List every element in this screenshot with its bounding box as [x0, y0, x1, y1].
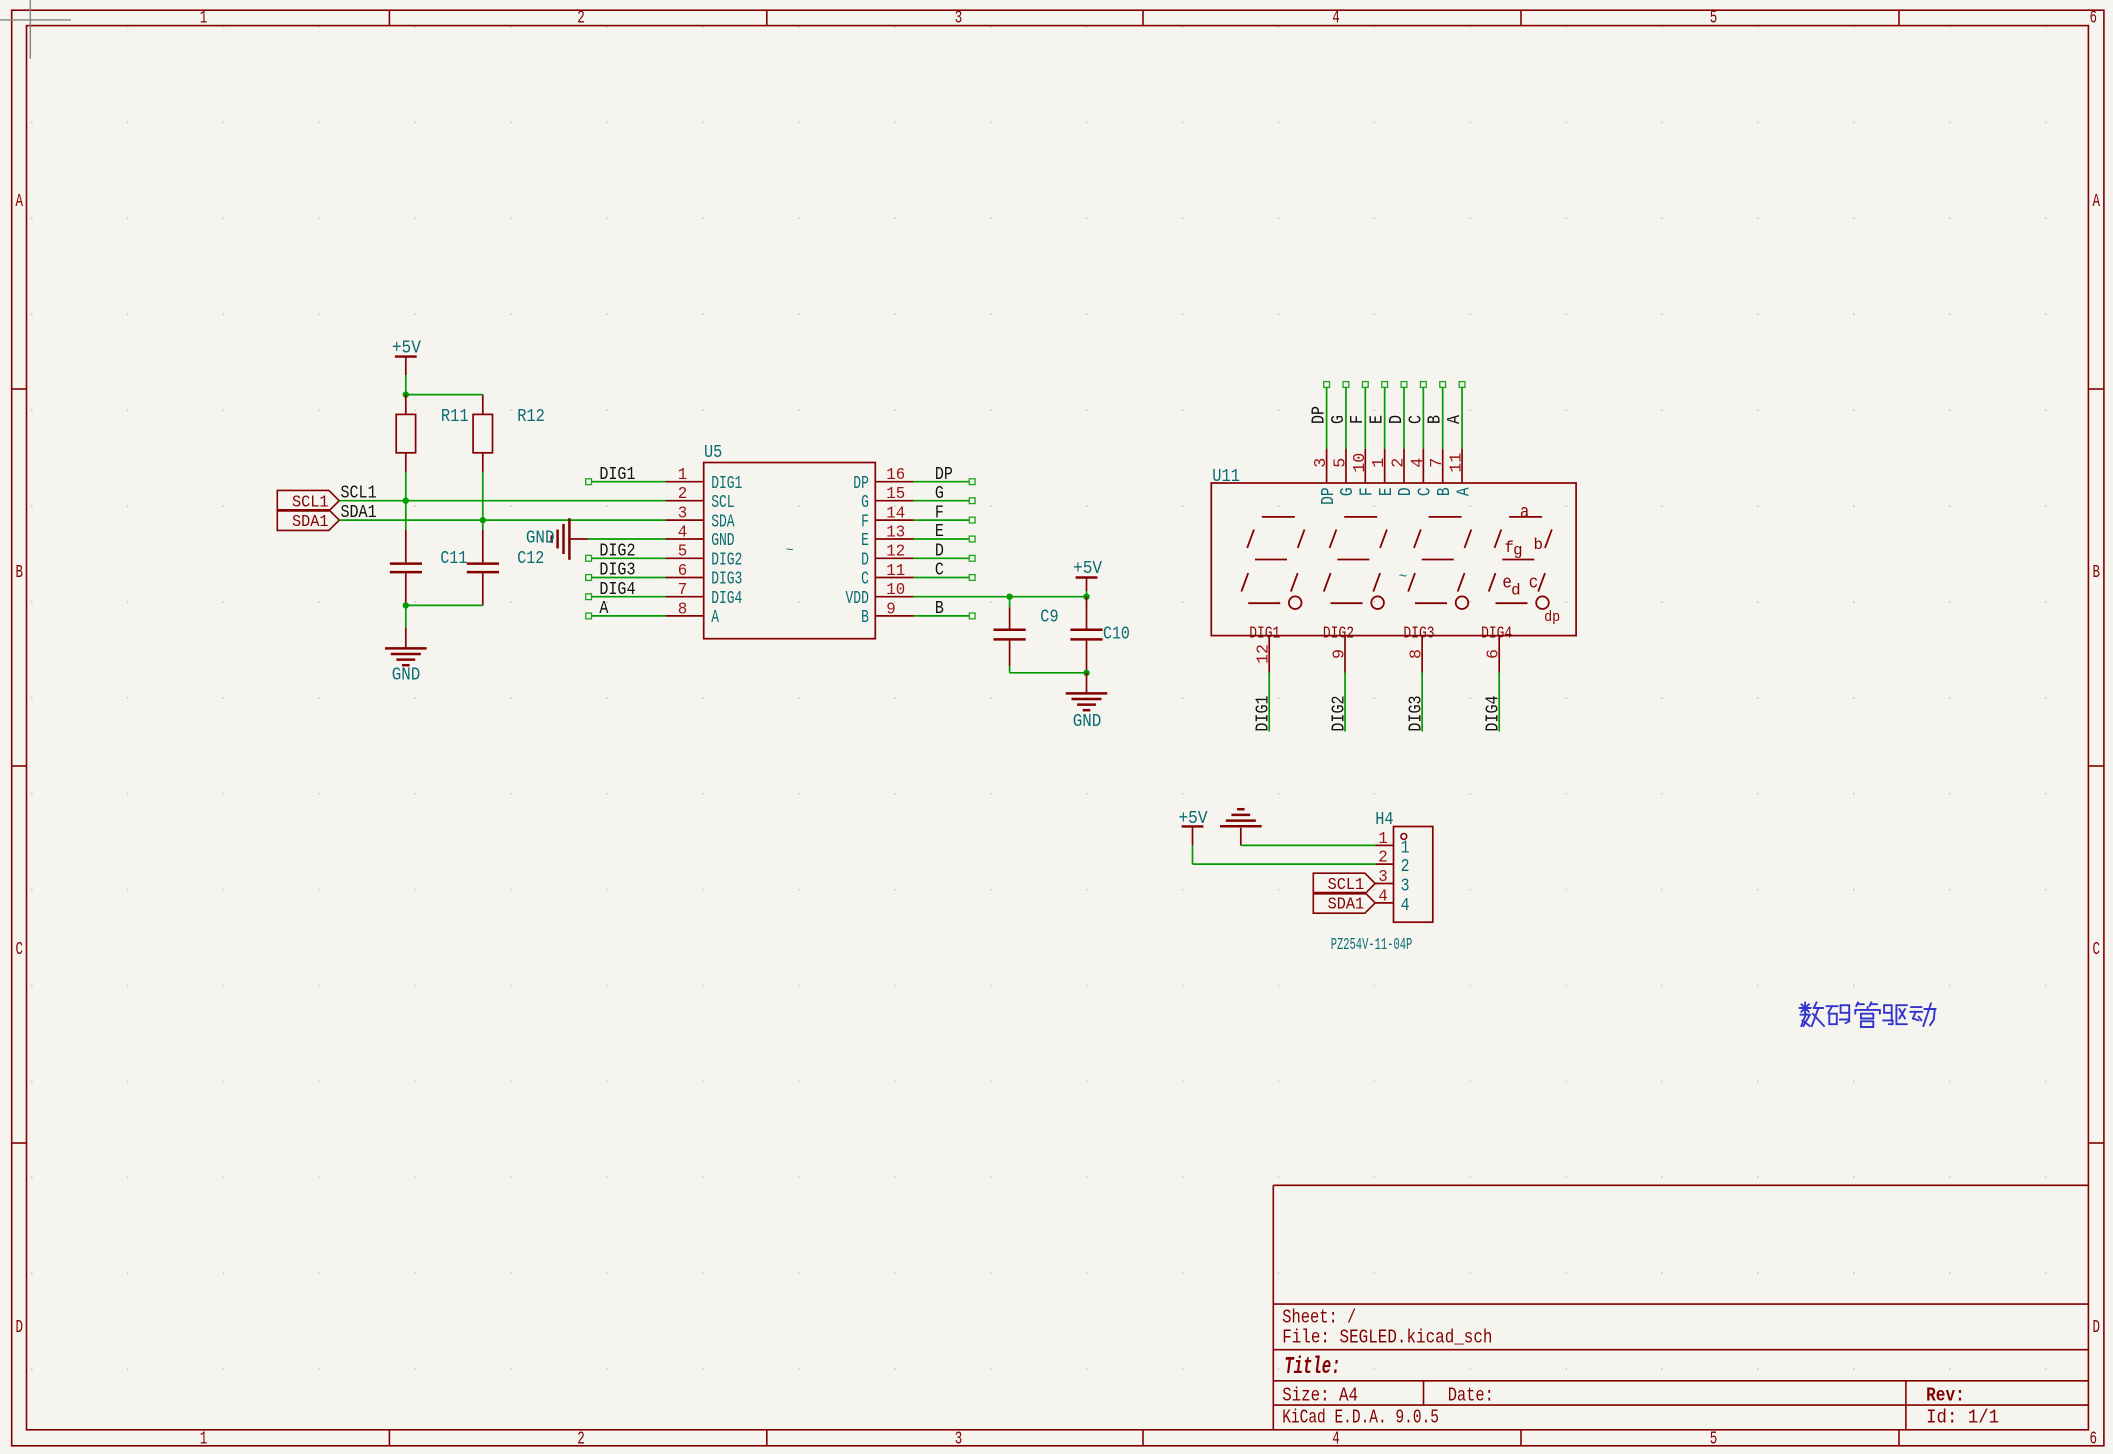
- label F: [935, 503, 944, 523]
- svg-text:B: B: [861, 608, 869, 628]
- connector H4 (PZ254V-11-04P): [1331, 810, 1433, 955]
- wire E (top): [1382, 382, 1388, 449]
- wire DIG1: [586, 479, 666, 485]
- svg-text:DIG1: DIG1: [1254, 696, 1274, 732]
- svg-text:2: 2: [1390, 458, 1409, 468]
- wire F: [914, 517, 975, 523]
- power symbol GND (rotated): [526, 518, 588, 560]
- svg-text:SDA: SDA: [711, 512, 735, 532]
- wire: [405, 375, 407, 395]
- svg-text:File: SEGLED.kicad_sch: File: SEGLED.kicad_sch: [1282, 1326, 1492, 1348]
- label B (vertical): [1426, 415, 1446, 424]
- svg-text:1: 1: [200, 1429, 208, 1449]
- junction: [1083, 594, 1089, 600]
- svg-text:U5: U5: [704, 443, 722, 463]
- junction: [403, 391, 409, 397]
- svg-text:5: 5: [1710, 1429, 1718, 1449]
- svg-text:8: 8: [678, 600, 688, 619]
- svg-text:1: 1: [678, 466, 688, 485]
- svg-text:2: 2: [678, 485, 688, 504]
- label DP (vertical): [1310, 406, 1330, 424]
- title block Rev: [1926, 1384, 1965, 1406]
- svg-text:a: a: [1520, 503, 1530, 523]
- svg-text:Id: 1/1: Id: 1/1: [1926, 1406, 1999, 1428]
- svg-text:16: 16: [886, 466, 905, 485]
- power symbol +5V (H4): [1179, 809, 1208, 845]
- wire: [1241, 844, 1375, 846]
- label G: [935, 484, 944, 504]
- IC U11 (4-digit 7-segment display): [1211, 449, 1576, 673]
- svg-text:3: 3: [955, 1429, 963, 1449]
- wire: [482, 520, 484, 530]
- wire G: [914, 498, 975, 504]
- label A (vertical): [1445, 415, 1465, 424]
- svg-text:Size: A4: Size: A4: [1282, 1384, 1358, 1406]
- junction: [1006, 594, 1012, 600]
- svg-text:DIG2: DIG2: [1323, 624, 1354, 643]
- label DIG4: [599, 580, 635, 600]
- svg-text:E: E: [1368, 415, 1388, 424]
- label DIG2: [599, 542, 635, 562]
- svg-text:DIG2: DIG2: [599, 542, 635, 562]
- svg-text:9: 9: [886, 600, 896, 619]
- svg-text:DIG4: DIG4: [1481, 624, 1512, 643]
- wire: [406, 394, 483, 396]
- svg-text:C12: C12: [517, 549, 544, 569]
- label DIG2 (vertical): [1329, 696, 1349, 732]
- wire DIG4 (bottom): [1498, 673, 1500, 732]
- svg-text:D: D: [15, 1318, 23, 1338]
- svg-text:VDD: VDD: [846, 589, 869, 609]
- label SDA1: [341, 503, 377, 523]
- svg-text:D: D: [1396, 487, 1416, 496]
- svg-text:G: G: [1329, 415, 1349, 424]
- title block KiCad version: [1282, 1406, 1439, 1428]
- title block Title: [1284, 1354, 1340, 1381]
- title block Id: [1926, 1406, 1999, 1428]
- label C: [935, 561, 944, 581]
- power symbol +5V (PWR01): [392, 338, 421, 375]
- wire E: [914, 536, 975, 542]
- wire DIG3 (bottom): [1421, 673, 1423, 732]
- svg-text:SCL: SCL: [711, 493, 734, 513]
- svg-text:11: 11: [1448, 453, 1467, 473]
- svg-text:GND: GND: [711, 531, 734, 551]
- wire B: [914, 613, 975, 619]
- svg-text:1: 1: [1401, 838, 1410, 858]
- svg-text:R11: R11: [441, 407, 469, 427]
- svg-text:9: 9: [1331, 649, 1350, 659]
- svg-text:DP: DP: [853, 474, 869, 494]
- power symbol GND: [1066, 673, 1108, 732]
- wire DIG3: [586, 575, 666, 581]
- svg-text:DP: DP: [1319, 487, 1339, 505]
- capacitor C12: [467, 530, 544, 606]
- svg-text:d: d: [1511, 582, 1521, 600]
- svg-text:C: C: [1416, 487, 1436, 496]
- wire: [482, 472, 484, 520]
- svg-text:B: B: [15, 563, 23, 583]
- svg-text:B: B: [1435, 487, 1455, 496]
- wire DP (top): [1324, 382, 1330, 449]
- svg-text:6: 6: [2090, 9, 2098, 29]
- svg-text:2: 2: [1378, 849, 1388, 868]
- svg-text:1: 1: [200, 9, 208, 29]
- svg-text:C: C: [15, 940, 23, 960]
- svg-text:D: D: [935, 542, 944, 562]
- svg-text:14: 14: [886, 505, 905, 524]
- wire D (top): [1401, 382, 1407, 449]
- text caption (Chinese) 数码管驱动: [1799, 1002, 1935, 1027]
- svg-text:1: 1: [1378, 830, 1388, 849]
- svg-text:+5V: +5V: [392, 338, 421, 358]
- svg-text:SDA1: SDA1: [1328, 896, 1365, 915]
- label B: [935, 599, 944, 619]
- svg-text:C10: C10: [1103, 625, 1130, 645]
- svg-text:F: F: [861, 512, 869, 532]
- svg-text:dp: dp: [1544, 610, 1560, 626]
- label A: [599, 599, 608, 619]
- svg-text:3: 3: [1312, 458, 1331, 468]
- svg-text:Rev:: Rev:: [1926, 1384, 1965, 1406]
- svg-text:H4: H4: [1375, 810, 1393, 830]
- label F (vertical): [1348, 415, 1368, 424]
- power symbol GND: [385, 628, 427, 686]
- svg-text:D: D: [861, 551, 869, 571]
- svg-text:6: 6: [1485, 649, 1504, 659]
- title block box: [1273, 1185, 2088, 1430]
- svg-text:+5V: +5V: [1073, 559, 1102, 579]
- title block Sheet: [1282, 1306, 1356, 1328]
- svg-text:B: B: [935, 599, 944, 619]
- title block Size: [1282, 1384, 1358, 1406]
- svg-text:DIG1: DIG1: [1249, 624, 1280, 643]
- wire: [405, 501, 407, 530]
- label DIG3 (vertical): [1406, 696, 1426, 732]
- wire SCL1: [339, 500, 665, 502]
- junction: [403, 498, 409, 504]
- title block File: [1282, 1326, 1492, 1348]
- wire A: [586, 613, 666, 619]
- label DIG1 (vertical): [1254, 696, 1274, 732]
- svg-text:12: 12: [1255, 644, 1274, 664]
- svg-text:4: 4: [1401, 896, 1410, 916]
- svg-text:C9: C9: [1040, 608, 1058, 628]
- svg-text:F: F: [1348, 415, 1368, 424]
- svg-text:4: 4: [1332, 9, 1340, 29]
- wire F (top): [1362, 382, 1368, 449]
- junction: [403, 602, 409, 608]
- svg-text:GND: GND: [392, 666, 421, 686]
- svg-text:A: A: [15, 192, 23, 212]
- svg-text:8: 8: [1408, 649, 1427, 659]
- svg-text:E: E: [1377, 487, 1397, 496]
- svg-text:DIG4: DIG4: [1484, 696, 1504, 732]
- svg-text:4: 4: [1332, 1429, 1340, 1449]
- svg-text:D: D: [2092, 1318, 2100, 1338]
- svg-text:A: A: [711, 608, 719, 628]
- svg-text:3: 3: [678, 505, 688, 524]
- svg-text:C11: C11: [440, 549, 467, 569]
- svg-text:2: 2: [577, 9, 585, 29]
- wire DP: [914, 479, 975, 485]
- wire: [1009, 666, 1011, 673]
- svg-text:SDA1: SDA1: [292, 513, 329, 532]
- svg-text:3: 3: [955, 9, 963, 29]
- svg-text:G: G: [1338, 487, 1358, 496]
- svg-text:4: 4: [678, 523, 688, 542]
- svg-text:DIG2: DIG2: [1329, 696, 1349, 732]
- svg-text:A: A: [599, 599, 608, 619]
- svg-text:2: 2: [1401, 857, 1410, 877]
- capacitor C9: [994, 607, 1059, 666]
- svg-text:10: 10: [1351, 453, 1370, 473]
- svg-text:~: ~: [1399, 570, 1407, 586]
- svg-text:C: C: [2092, 940, 2100, 960]
- svg-text:E: E: [861, 531, 869, 551]
- svg-text:G: G: [861, 493, 869, 513]
- label DIG1: [599, 465, 635, 485]
- svg-text:C: C: [935, 561, 944, 581]
- svg-text:GND: GND: [526, 529, 555, 549]
- svg-text:SCL1: SCL1: [341, 484, 377, 504]
- svg-text:A: A: [2092, 192, 2100, 212]
- label SCL1: [341, 484, 377, 504]
- svg-text:11: 11: [886, 562, 905, 581]
- svg-text:4: 4: [1409, 458, 1428, 468]
- hierarchical label SDA1: [277, 510, 339, 532]
- svg-text:g: g: [1513, 541, 1523, 559]
- svg-text:Sheet: /: Sheet: /: [1282, 1306, 1356, 1328]
- svg-text:U11: U11: [1212, 467, 1240, 487]
- svg-text:KiCad E.D.A. 9.0.5: KiCad E.D.A. 9.0.5: [1282, 1406, 1439, 1428]
- label D (vertical): [1387, 415, 1407, 424]
- wire SDA1: [339, 519, 665, 521]
- svg-text:5: 5: [1710, 9, 1718, 29]
- wire: [405, 605, 407, 627]
- svg-text:A: A: [1445, 415, 1465, 424]
- wire: [406, 604, 483, 606]
- svg-text:6: 6: [678, 562, 688, 581]
- svg-text:3: 3: [1378, 868, 1388, 887]
- svg-text:DP: DP: [935, 465, 953, 485]
- svg-text:F: F: [935, 503, 944, 523]
- svg-text:5: 5: [1331, 458, 1350, 468]
- svg-text:SDA1: SDA1: [341, 503, 377, 523]
- wire: [1193, 863, 1376, 865]
- svg-text:~: ~: [786, 543, 794, 558]
- svg-text:E: E: [935, 522, 944, 542]
- svg-text:c: c: [1529, 574, 1539, 594]
- wire VDD: [914, 596, 1087, 598]
- label DIG3: [599, 561, 635, 581]
- wire DIG2 (bottom): [1344, 673, 1346, 732]
- svg-text:DIG3: DIG3: [1403, 624, 1434, 643]
- label E: [935, 522, 944, 542]
- wire: [1192, 845, 1194, 864]
- label C (vertical): [1406, 415, 1426, 424]
- svg-text:15: 15: [886, 485, 905, 504]
- svg-text:DIG4: DIG4: [711, 589, 742, 609]
- junction: [480, 517, 486, 523]
- svg-text:10: 10: [886, 581, 905, 600]
- svg-text:C: C: [861, 570, 869, 590]
- svg-text:DIG2: DIG2: [711, 551, 742, 571]
- svg-text:C: C: [1406, 415, 1426, 424]
- wire: [1010, 672, 1087, 674]
- svg-text:DIG3: DIG3: [711, 570, 742, 590]
- capacitor C11: [390, 530, 468, 606]
- svg-text:4: 4: [1378, 887, 1388, 906]
- svg-text:Title:: Title:: [1284, 1354, 1340, 1381]
- svg-text:R12: R12: [517, 407, 545, 427]
- svg-text:B: B: [2092, 563, 2100, 583]
- wire: [405, 472, 407, 501]
- wire: [1009, 597, 1011, 608]
- svg-text:DIG1: DIG1: [711, 474, 742, 494]
- svg-text:1: 1: [1370, 458, 1389, 468]
- svg-text:7: 7: [678, 581, 688, 600]
- svg-text:GND: GND: [1073, 712, 1102, 732]
- svg-text:DIG3: DIG3: [599, 561, 635, 581]
- label DIG4 (vertical): [1484, 696, 1504, 732]
- capacitor C10: [1070, 597, 1130, 673]
- wire C (top): [1420, 382, 1426, 449]
- svg-text:6: 6: [2090, 1429, 2098, 1449]
- svg-text:3: 3: [1401, 876, 1410, 896]
- IC U5 (TM1650 LED driver): [665, 443, 913, 639]
- svg-text:b: b: [1534, 536, 1544, 554]
- label DP: [935, 465, 953, 485]
- wire DIG1 (bottom): [1268, 673, 1270, 732]
- svg-text:Date:: Date:: [1448, 1384, 1494, 1406]
- svg-text:DP: DP: [1310, 406, 1330, 424]
- hierarchical label SCL1 (H4): [1313, 873, 1375, 895]
- wire C: [914, 575, 975, 581]
- power symbol GND (inverted, H4): [1220, 809, 1262, 845]
- label G (vertical): [1329, 415, 1349, 424]
- resistor R11: [396, 395, 468, 472]
- svg-text:5: 5: [678, 543, 688, 562]
- wire DIG2: [586, 555, 666, 561]
- title block Date: [1448, 1384, 1494, 1406]
- svg-text:F: F: [1358, 487, 1378, 496]
- svg-text:7: 7: [1428, 458, 1447, 468]
- svg-text:A: A: [1454, 487, 1474, 496]
- junction: [1083, 670, 1089, 676]
- svg-text:DIG3: DIG3: [1406, 696, 1426, 732]
- hierarchical label SDA1 (H4): [1313, 893, 1375, 915]
- svg-text:12: 12: [886, 543, 905, 562]
- wire DIG4: [586, 594, 666, 600]
- svg-text:13: 13: [886, 523, 905, 542]
- resistor R12: [473, 395, 545, 472]
- svg-text:G: G: [935, 484, 944, 504]
- wire D: [914, 555, 975, 561]
- label D: [935, 542, 944, 562]
- svg-text:PZ254V-11-04P: PZ254V-11-04P: [1331, 936, 1413, 955]
- wire: [588, 538, 666, 540]
- power symbol +5V: [1073, 559, 1102, 591]
- svg-text:DIG1: DIG1: [599, 465, 635, 485]
- hierarchical label SCL1: [277, 490, 339, 512]
- svg-text:B: B: [1426, 415, 1446, 424]
- svg-text:D: D: [1387, 415, 1407, 424]
- wire B (top): [1440, 382, 1446, 449]
- wire A (top): [1459, 382, 1465, 449]
- label E (vertical): [1368, 415, 1388, 424]
- wire: [1086, 591, 1088, 597]
- wire G (top): [1343, 382, 1349, 449]
- svg-text:2: 2: [577, 1429, 585, 1449]
- svg-text:DIG4: DIG4: [599, 580, 635, 600]
